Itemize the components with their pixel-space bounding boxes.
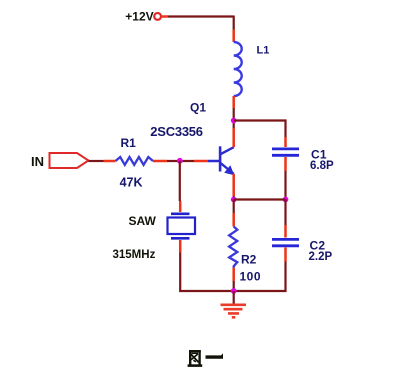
power terminal circle [154, 13, 161, 20]
node C1/C2 junction [283, 197, 289, 203]
wire C1/C2 node down to C2 [284, 200, 286, 226]
node collector junction [231, 118, 237, 124]
resistor R1 right pin [153, 160, 167, 163]
caption character 图 [188, 351, 203, 366]
svg-text:L1: L1 [257, 45, 270, 57]
inductor L1 bottom pin [232, 96, 235, 108]
capacitor C2 top pin [284, 225, 287, 238]
capacitor C1 plates [272, 149, 299, 155]
svg-text:IN: IN [31, 154, 44, 169]
wire base node down to SAW [179, 161, 181, 201]
SAW resonator bottom pin [179, 240, 182, 253]
transistor Q1 collector pin [232, 128, 235, 147]
svg-text:315MHz: 315MHz [113, 249, 156, 261]
wire emitter to emitter node [233, 196, 235, 200]
capacitor C2 plates [272, 239, 299, 245]
capacitor C1 bottom pin [284, 157, 287, 171]
svg-text:47K: 47K [120, 176, 143, 190]
input port symbol [50, 153, 89, 168]
inductor L1 top pin [232, 30, 235, 43]
wire port to R1 [89, 160, 104, 162]
node ground junction [231, 288, 237, 294]
transistor Q1 collector lead [221, 147, 234, 154]
capacitor C2 bottom pin [284, 248, 287, 262]
svg-text:R2: R2 [241, 253, 257, 267]
transistor Q1 emitter arrow [224, 165, 234, 175]
wire bottom rail [179, 262, 287, 292]
SAW resonator top plate [171, 213, 190, 216]
transistor Q1 emitter lead [221, 163, 234, 174]
wire emitter node down to R2 [233, 200, 235, 214]
ground symbol [221, 305, 247, 318]
wire top corner down to L1 [233, 16, 235, 30]
transistor Q1 bar [219, 146, 222, 171]
power terminal pin [161, 15, 168, 18]
svg-text:SAW: SAW [129, 214, 157, 228]
wire collector node to C1 top corner [234, 121, 286, 138]
node base junction [177, 158, 183, 164]
svg-text:6.8P: 6.8P [310, 160, 334, 172]
svg-text:100: 100 [240, 270, 262, 284]
svg-text:+12V: +12V [125, 10, 153, 24]
SAW resonator body [168, 218, 196, 235]
capacitor C1 top pin [284, 137, 287, 147]
SAW resonator top pin [179, 201, 182, 212]
wire C1 bottom to right node [284, 171, 286, 200]
resistor R1 left pin [104, 160, 116, 163]
resistor R2 bottom pin [232, 268, 235, 282]
resistor R2 top pin [232, 213, 235, 227]
resistor R1 zigzag [116, 157, 154, 165]
wire SAW bottom to rail corner [179, 253, 181, 291]
svg-text:Q1: Q1 [190, 101, 206, 115]
transistor Q1 base pin [194, 160, 208, 163]
wire L1 to collector node [233, 108, 235, 128]
svg-text:R1: R1 [121, 136, 137, 150]
node emitter junction [231, 197, 237, 203]
resistor R2 zigzag [229, 227, 237, 268]
wire R2 bottom to rail [233, 281, 235, 291]
svg-text:2.2P: 2.2P [309, 251, 333, 263]
wire +12V terminal to top corner [168, 15, 234, 17]
wire R1 to base node and Q1 base [167, 160, 194, 162]
transistor Q1 emitter pin [232, 174, 235, 196]
caption character 一 [206, 353, 224, 358]
svg-text:2SC3356: 2SC3356 [150, 124, 202, 139]
SAW resonator bottom plate [171, 237, 190, 240]
transistor Q1 base lead [208, 160, 219, 163]
inductor L1 coil [234, 42, 242, 96]
ground stem [233, 291, 235, 304]
wire emitter node to C1/C2 node [234, 198, 286, 200]
